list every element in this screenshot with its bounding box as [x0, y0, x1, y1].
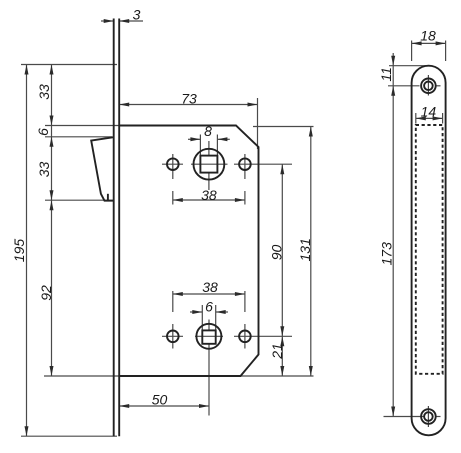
- svg-text:18: 18: [420, 28, 436, 44]
- svg-text:92: 92: [38, 285, 54, 301]
- svg-text:50: 50: [152, 392, 168, 408]
- svg-text:33: 33: [36, 84, 52, 100]
- svg-text:195: 195: [11, 239, 27, 263]
- svg-text:21: 21: [269, 343, 285, 360]
- svg-text:38: 38: [201, 187, 217, 203]
- svg-text:14: 14: [421, 104, 437, 120]
- svg-text:8: 8: [204, 123, 212, 139]
- svg-text:11: 11: [378, 67, 394, 82]
- svg-text:33: 33: [36, 162, 52, 178]
- svg-text:6: 6: [205, 299, 213, 315]
- svg-text:3: 3: [133, 7, 141, 23]
- svg-text:73: 73: [181, 91, 197, 107]
- svg-text:90: 90: [269, 245, 285, 261]
- svg-text:38: 38: [202, 279, 218, 295]
- svg-text:173: 173: [379, 242, 395, 266]
- svg-text:6: 6: [35, 128, 51, 136]
- svg-text:131: 131: [297, 238, 313, 261]
